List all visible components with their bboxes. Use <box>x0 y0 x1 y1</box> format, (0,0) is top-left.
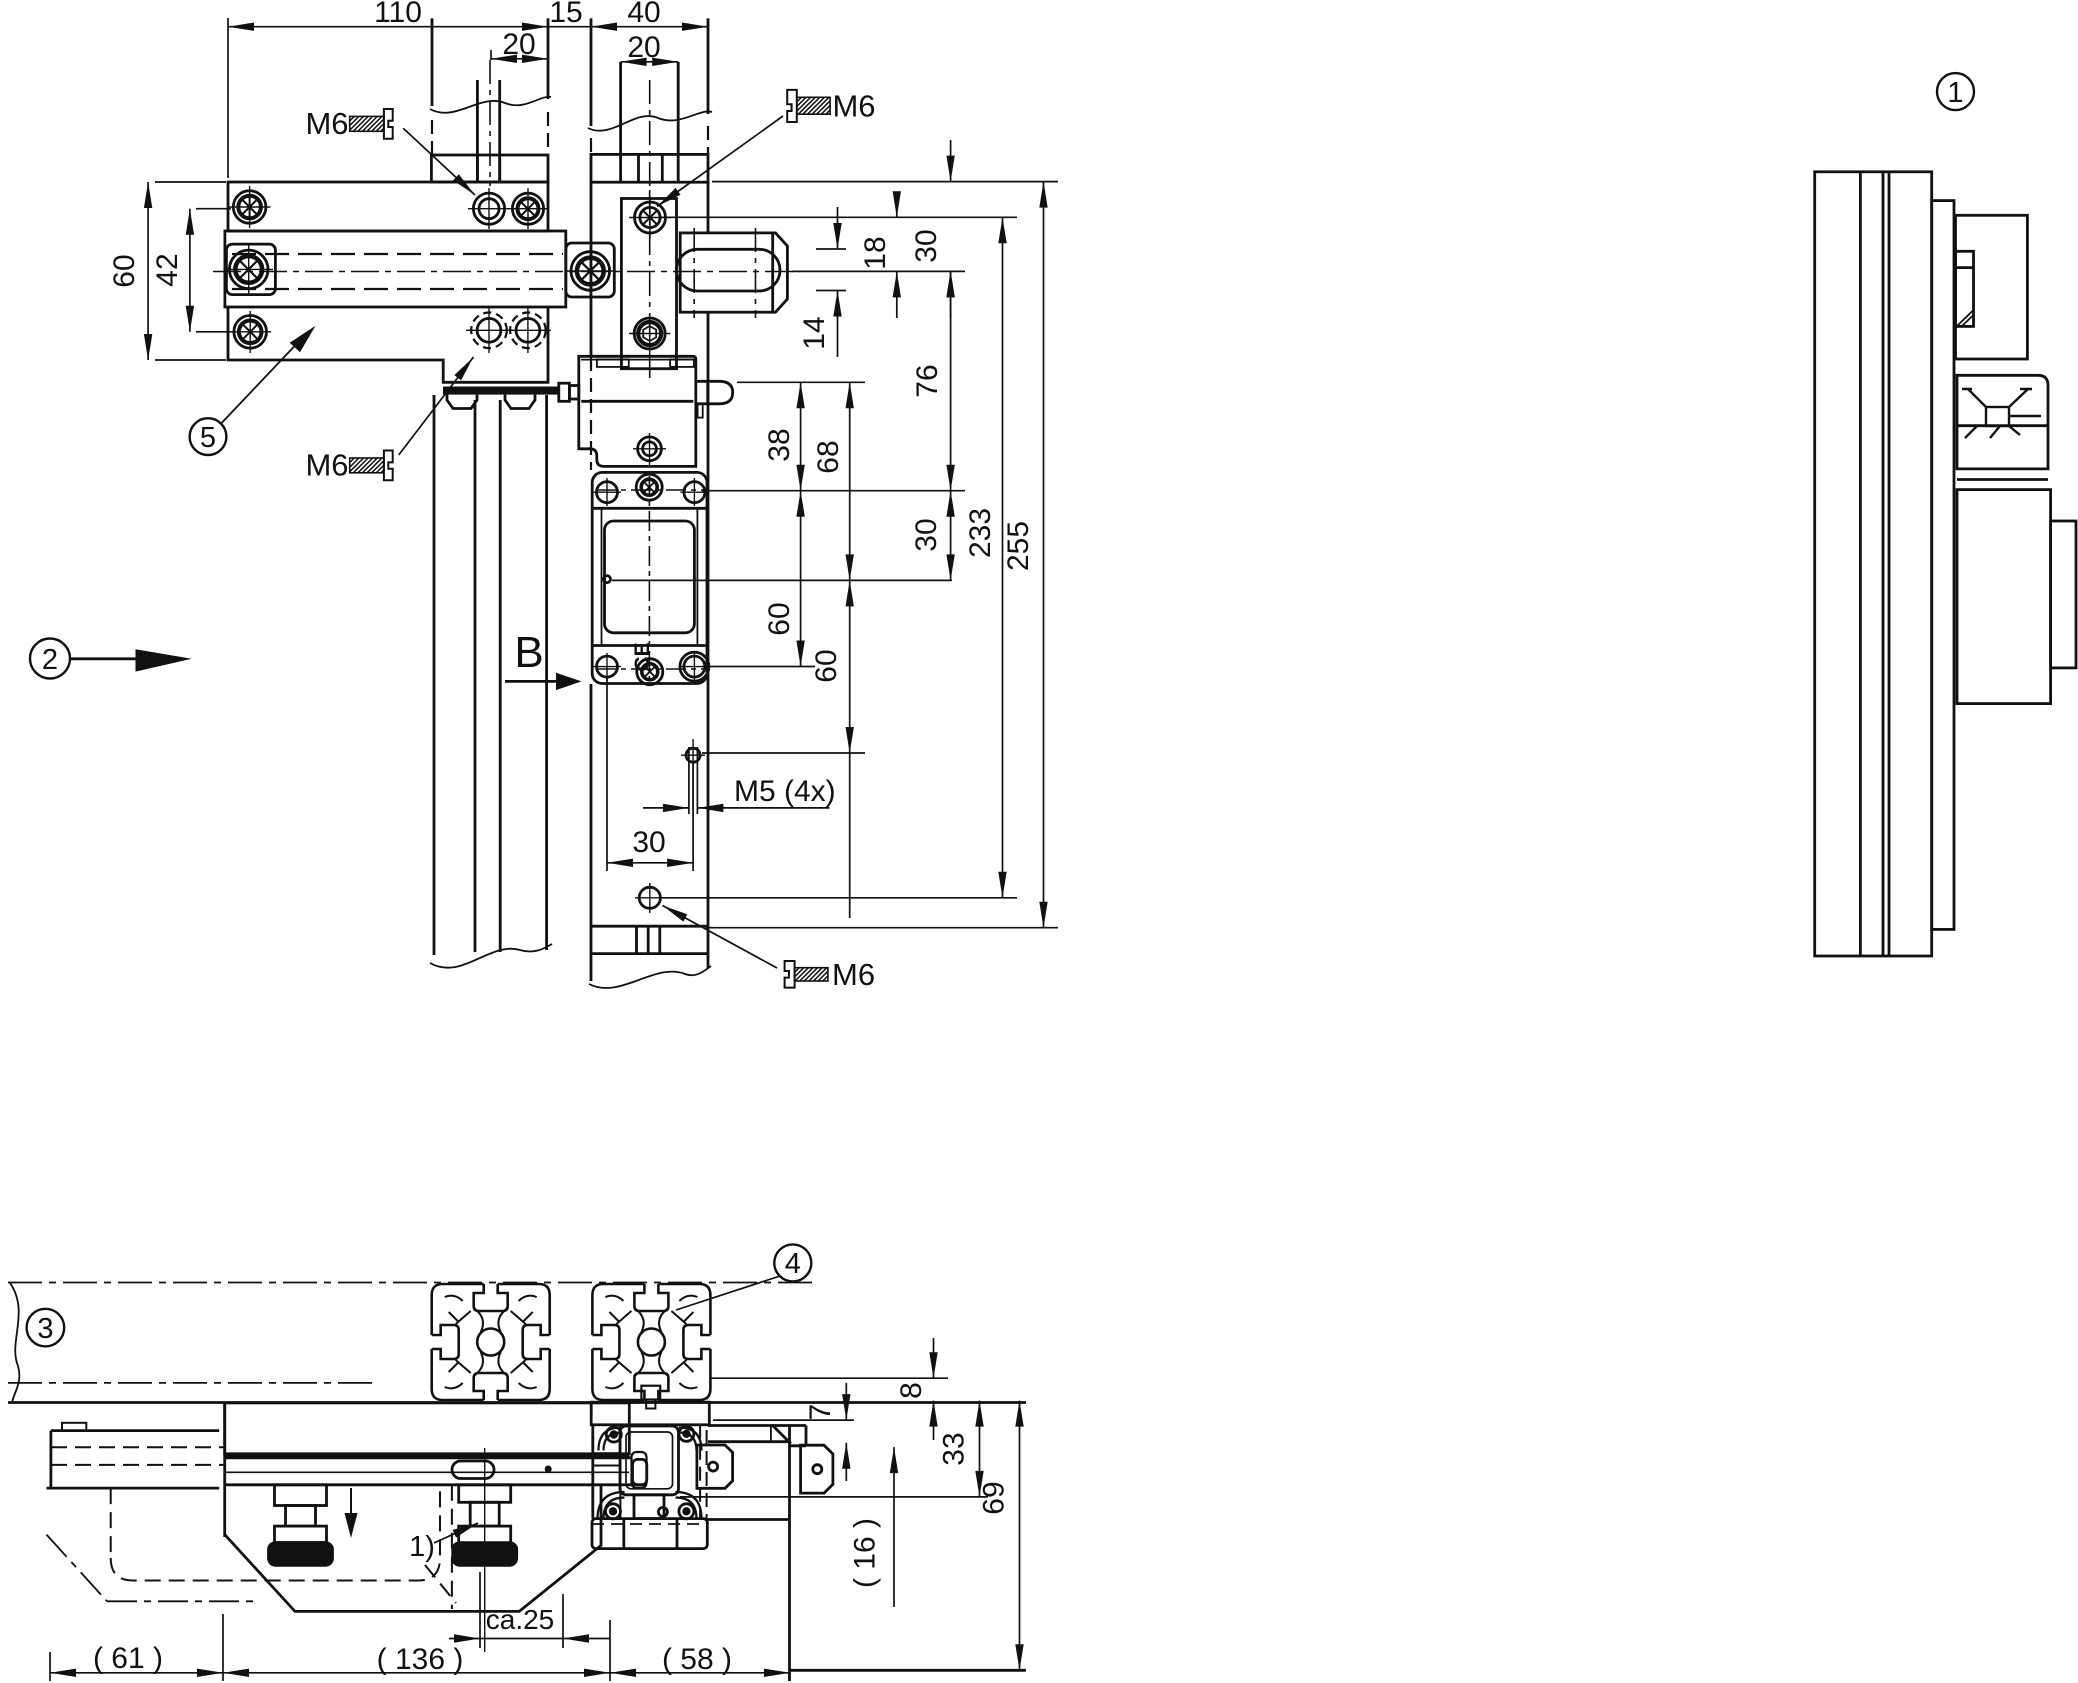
svg-text:ca.25: ca.25 <box>486 1604 555 1635</box>
svg-text:M6: M6 <box>305 448 348 483</box>
item circle 2 with view arrow <box>30 639 70 679</box>
svg-text:60: 60 <box>810 649 843 682</box>
dim 233 <box>1002 217 1004 898</box>
slot <box>677 249 781 291</box>
svg-text:2: 2 <box>42 644 58 676</box>
dim 42 <box>189 209 191 332</box>
dim ca.25 <box>449 1638 480 1640</box>
M6 screw label top-left <box>305 106 475 195</box>
svg-text:255: 255 <box>1002 521 1035 571</box>
clamp knob 1 <box>269 1485 333 1565</box>
svg-text:4: 4 <box>785 1248 801 1280</box>
dim 60 lower <box>849 580 851 753</box>
profile bar side view <box>1815 172 1932 956</box>
dim 7 <box>845 1383 847 1420</box>
M6 screw label bottom <box>663 906 876 993</box>
svg-text:15: 15 <box>549 0 582 29</box>
dim 76 <box>950 271 952 490</box>
svg-text:5: 5 <box>200 422 216 454</box>
bottom dim row <box>50 1672 223 1674</box>
press arrow <box>350 1488 352 1514</box>
item circle 3 <box>27 1309 65 1347</box>
extension line for dim 33 bottom <box>680 1496 988 1498</box>
svg-text:30: 30 <box>910 518 943 551</box>
svg-text:110: 110 <box>374 0 422 29</box>
item circle 1 <box>1937 73 1974 110</box>
dim 14 <box>837 207 839 249</box>
svg-text:30: 30 <box>632 826 665 859</box>
extension lines right side <box>712 181 1058 183</box>
svg-text:20: 20 <box>627 31 660 64</box>
svg-text:3: 3 <box>37 1313 53 1345</box>
plate bottom hex screw <box>634 318 665 349</box>
bracket claw arcs <box>599 1428 622 1451</box>
door edge reference <box>788 1426 791 1682</box>
svg-text:42: 42 <box>151 253 184 286</box>
door holder mid box <box>1957 375 2048 469</box>
M5 hole <box>686 748 700 762</box>
rail top band (item 5) <box>228 182 548 231</box>
top box (slot block side) <box>1956 215 2028 359</box>
dim 60 upper <box>800 491 802 667</box>
bottom view dimensions <box>50 1338 1020 1681</box>
clamp plate under right profile <box>591 1402 709 1425</box>
bracket left strip <box>591 1425 594 1519</box>
clamp strip (black) <box>443 387 559 395</box>
dim 30 top <box>950 140 952 182</box>
dim 60 left <box>147 182 149 360</box>
T-slot profile right (item 4) <box>592 1284 710 1400</box>
svg-text:233: 233 <box>964 508 997 558</box>
dim 255 <box>1043 182 1045 928</box>
switch foot <box>592 1519 707 1549</box>
bowtie clamp detail <box>1962 389 2041 438</box>
svg-text:33: 33 <box>938 1432 971 1465</box>
M6 hole pair on band <box>468 188 549 229</box>
dimension texts front view <box>108 0 1035 859</box>
inner hinge tab <box>697 1445 733 1488</box>
slide rail edge-on <box>225 1456 633 1459</box>
switch mounting holes bottom <box>597 656 618 677</box>
dim 8 <box>933 1338 935 1378</box>
T-nuts under strip <box>447 395 477 409</box>
dim 18 <box>896 193 898 217</box>
right stub column above <box>590 18 593 126</box>
rail body <box>225 231 566 307</box>
dim M5 (4x) <box>643 807 689 809</box>
svg-text:60: 60 <box>108 254 141 287</box>
extension lines top <box>227 18 229 178</box>
lock housing of safety switch <box>579 356 696 466</box>
bottom M6 hole <box>639 887 660 908</box>
T-nut in right profile bottom slot <box>641 1386 660 1400</box>
item circle 4 with leader <box>774 1244 811 1281</box>
svg-text:40: 40 <box>627 0 660 29</box>
switch mounting holes top <box>597 482 618 503</box>
dim 40 <box>591 26 708 28</box>
right stub collar <box>591 154 708 182</box>
angle bracket hidden edges <box>700 1425 707 1520</box>
left stub collar <box>431 155 548 182</box>
dim 20 right <box>621 61 679 63</box>
mounting plate <box>621 199 676 369</box>
svg-text:( 16 ): ( 16 ) <box>849 1518 882 1588</box>
hidden M6 screws in clamp bracket <box>466 308 551 353</box>
svg-text:1): 1) <box>409 1531 435 1563</box>
svg-text:M6: M6 <box>832 957 875 992</box>
svg-text:76: 76 <box>911 364 944 397</box>
large box (switch side) <box>1957 490 2051 704</box>
svg-text:B: B <box>514 628 543 677</box>
T-slot profile left <box>432 1284 550 1400</box>
tongue plate seen from below <box>708 1426 789 1442</box>
svg-text:68: 68 <box>812 440 845 473</box>
bracket corner screws <box>606 1427 621 1442</box>
svg-text:1: 1 <box>1947 77 1963 109</box>
dim 30 bottom <box>607 862 693 864</box>
slot block <box>680 233 773 312</box>
rail end plate with screw <box>566 243 615 297</box>
switch body <box>592 472 707 683</box>
plate top screw M6 <box>635 202 666 233</box>
svg-text:18: 18 <box>859 236 892 269</box>
switch gland below <box>634 1495 664 1519</box>
housing screw <box>638 437 662 461</box>
dim 38 <box>800 382 802 490</box>
svg-text:60: 60 <box>763 602 796 635</box>
outer hinge tab <box>801 1445 833 1493</box>
right rail column <box>590 182 593 356</box>
main body under plate <box>223 1403 226 1537</box>
bearing plate <box>225 1403 630 1454</box>
left column break line <box>430 944 552 968</box>
M6 screw label top-right <box>657 89 876 207</box>
lower band and clamp bracket <box>228 307 548 382</box>
rail hidden slot lines <box>232 254 563 289</box>
svg-text:14: 14 <box>798 316 831 349</box>
svg-text:8: 8 <box>895 1382 928 1399</box>
switch body from below <box>620 1426 679 1495</box>
clamp knob 2 <box>453 1485 517 1565</box>
phantom door frame beam (item 3) <box>8 1283 815 1383</box>
thin right box <box>2051 521 2076 668</box>
svg-text:69: 69 <box>978 1481 1011 1514</box>
svg-text:30: 30 <box>910 229 943 262</box>
rail centre line <box>213 271 800 273</box>
svg-text:CE: CE <box>631 642 654 671</box>
svg-text:38: 38 <box>763 428 796 461</box>
dim 20 left <box>491 58 548 60</box>
dim 68 <box>849 382 851 580</box>
extension line for dim 8 <box>709 1377 948 1379</box>
right rail bottom end <box>591 925 708 928</box>
bottom-left screw <box>234 316 267 349</box>
label window <box>605 521 695 633</box>
dim 33 <box>979 1401 981 1497</box>
M6 screw label mid-left <box>305 357 473 483</box>
svg-text:20: 20 <box>502 28 535 61</box>
lines below mid box <box>1957 478 2048 481</box>
svg-text:M6: M6 <box>832 89 875 124</box>
left carriage part <box>62 1423 86 1431</box>
svg-text:M5 (4x): M5 (4x) <box>734 775 836 808</box>
cable gland <box>559 383 570 401</box>
svg-text:M6: M6 <box>305 106 348 141</box>
dim 69 <box>1019 1401 1021 1671</box>
left stub column above <box>431 18 434 106</box>
svg-text:( 136 ): ( 136 ) <box>377 1643 464 1676</box>
mounting plate side <box>1932 201 1954 930</box>
svg-text:7: 7 <box>804 1404 837 1421</box>
dim 110 <box>148 18 1058 928</box>
left column profile lines <box>433 395 436 955</box>
screw M6 hole top-left of band <box>229 186 271 228</box>
svg-text:( 61 ): ( 61 ) <box>93 1642 163 1675</box>
lamp hole <box>604 576 611 583</box>
actuator tongue <box>696 381 733 404</box>
frame bottom / plate top line <box>8 1401 1026 1404</box>
dim 30 mid <box>950 491 952 581</box>
dim (16) <box>893 1447 895 1607</box>
item circle 5 with leader <box>190 418 227 455</box>
left slide plate with screw <box>226 244 275 295</box>
svg-text:( 58 ): ( 58 ) <box>662 1643 732 1676</box>
